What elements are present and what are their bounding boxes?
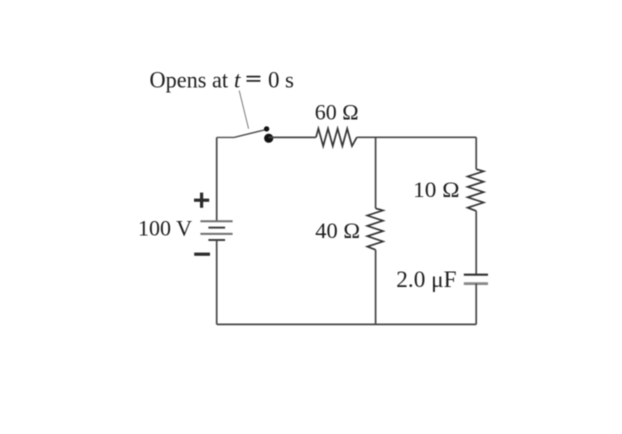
wire: bottom rail bbox=[217, 323, 477, 325]
battery - terminal symbol bbox=[194, 253, 210, 256]
wire: top segment from switch contact to 60Ω bbox=[269, 136, 316, 138]
svg-text:10 Ω: 10 Ω bbox=[413, 177, 459, 202]
battery + terminal symbol bbox=[194, 193, 209, 208]
svg-text:s: s bbox=[285, 67, 294, 92]
resistor R3 10Ω (vertical zigzag) bbox=[468, 169, 484, 211]
node: top middle T-junction / wire: middle vertical above 40Ω bbox=[375, 137, 377, 208]
svg-text:Opens at: Opens at bbox=[150, 67, 229, 92]
resistor R2 40Ω (vertical zigzag) bbox=[367, 208, 383, 249]
wire: right vertical between 10Ω and capacitor bbox=[475, 211, 477, 275]
wire: left vertical segment (battery down to bottom-left corner) bbox=[216, 240, 218, 324]
capacitor C1 2.0 μF: bottom plate bbox=[464, 282, 488, 285]
capacitor C1 2.0 μF: top plate bbox=[464, 274, 488, 276]
switch SW1: stub wire from corner bbox=[217, 136, 235, 138]
svg-text:0: 0 bbox=[268, 67, 280, 92]
switch SW1: fixed contact dot (large) bbox=[264, 134, 273, 143]
svg-text:100 V: 100 V bbox=[138, 216, 192, 241]
battery V1 (100 V), four plates long-short-long-short bbox=[200, 221, 232, 240]
resistor R1 60Ω (horizontal zigzag) bbox=[316, 129, 357, 146]
label pointer line to switch bbox=[239, 91, 248, 129]
svg-text:2.0 μF: 2.0 μF bbox=[396, 267, 456, 292]
wire: middle vertical below 40Ω bbox=[375, 250, 377, 325]
wire: top segment from 60Ω to top-right corner bbox=[357, 136, 476, 138]
svg-text:t: t bbox=[234, 67, 241, 92]
wire: right vertical below capacitor bbox=[475, 284, 477, 325]
svg-text:40 Ω: 40 Ω bbox=[315, 218, 360, 243]
wire: left vertical segment (top, switch corner down to battery) bbox=[216, 137, 218, 221]
wire: right vertical above 10Ω bbox=[475, 137, 477, 169]
switch SW1: moving-end dot (small) bbox=[264, 126, 269, 131]
switch SW1: blade (open) bbox=[235, 130, 266, 138]
svg-text:60 Ω: 60 Ω bbox=[315, 99, 359, 124]
